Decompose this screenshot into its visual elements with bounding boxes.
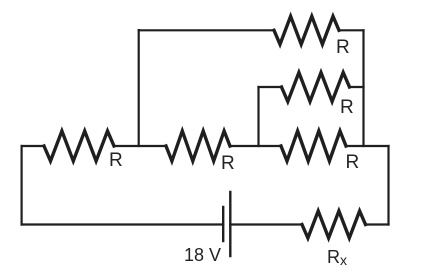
wire: bottom horizontal battery to Rx <box>230 223 302 225</box>
wire: middle row between R2 and R3 <box>230 145 281 147</box>
resistor R4 (top branch) <box>274 16 339 44</box>
wire: top branch horizontal <box>139 29 274 31</box>
svg-text:R: R <box>109 150 123 171</box>
battery V1 long plate (positive) <box>229 192 231 256</box>
wire: right inner vertical (top branch to middle row) <box>362 30 364 146</box>
battery V1 short plate (negative) <box>222 207 224 241</box>
wire: middle row between R1 and R2 <box>114 145 166 147</box>
wire: top branch right horizontal <box>339 29 364 31</box>
svg-text:R: R <box>221 153 235 174</box>
node A: junction to top branch <box>138 30 140 146</box>
svg-text:R: R <box>336 37 350 58</box>
wire: middle row left segment <box>22 145 44 147</box>
svg-text:R: R <box>346 152 360 173</box>
wire: outer left vertical <box>21 146 23 225</box>
resistor R5 (second loop) <box>282 73 350 102</box>
resistor R1 (middle row left) <box>44 131 114 161</box>
wire: bottom left horizontal to battery <box>22 223 224 225</box>
wire: second loop left horizontal <box>259 86 282 88</box>
resistor Rx <box>302 211 366 238</box>
resistor R3 (middle row right) <box>281 131 346 161</box>
svg-text:18 V: 18 V <box>184 245 221 265</box>
wire: outer right vertical <box>387 146 389 225</box>
svg-text:Rx: Rx <box>327 247 347 268</box>
wire: second loop right horizontal <box>350 86 364 88</box>
svg-text:R: R <box>340 97 354 118</box>
resistor R2 (middle row center) <box>166 131 230 161</box>
node B: junction to second loop branch <box>257 87 259 146</box>
wire: bottom right horizontal <box>366 223 389 225</box>
wire: middle row right segment <box>346 145 389 147</box>
